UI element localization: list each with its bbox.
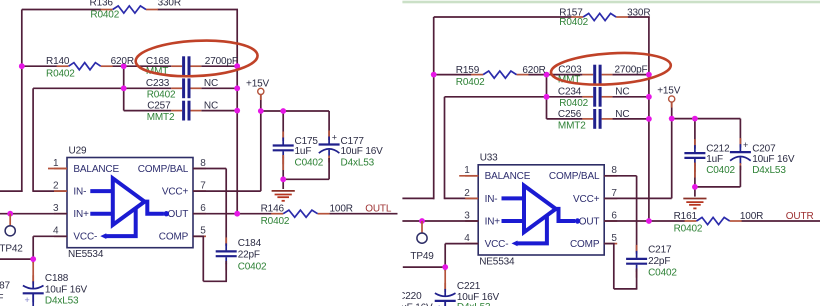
svg-text:620R: 620R xyxy=(111,56,134,67)
svg-text:C233: C233 xyxy=(146,78,170,89)
svg-text:22pF: 22pF xyxy=(238,250,260,261)
svg-text:D4xL53: D4xL53 xyxy=(341,157,375,168)
svg-text:1: 1 xyxy=(53,158,59,169)
svg-text:D4xL53: D4xL53 xyxy=(457,302,491,306)
svg-text:C256: C256 xyxy=(558,109,582,120)
svg-text:OUTR: OUTR xyxy=(786,211,814,222)
svg-text:COMP: COMP xyxy=(570,239,600,250)
svg-text:R140: R140 xyxy=(46,56,70,67)
svg-text:R0402: R0402 xyxy=(261,216,290,227)
svg-text:COMP/BAL: COMP/BAL xyxy=(549,171,600,182)
svg-text:2700pF: 2700pF xyxy=(615,64,648,75)
svg-text:R0402: R0402 xyxy=(559,98,588,109)
svg-text:C221: C221 xyxy=(457,281,481,292)
svg-text:IN-: IN- xyxy=(485,194,498,205)
svg-text:7: 7 xyxy=(200,181,206,192)
svg-text:MMT2: MMT2 xyxy=(558,121,586,132)
svg-text:C0402: C0402 xyxy=(648,268,677,279)
svg-text:3: 3 xyxy=(464,210,470,221)
svg-text:6: 6 xyxy=(200,203,206,214)
svg-text:R0402: R0402 xyxy=(90,9,119,20)
svg-text:C177: C177 xyxy=(341,136,365,147)
svg-text:IN+: IN+ xyxy=(485,216,501,227)
svg-text:R0402: R0402 xyxy=(46,68,75,79)
svg-text:1uF: 1uF xyxy=(706,154,723,165)
svg-text:R161: R161 xyxy=(674,211,698,222)
svg-text:BALANCE: BALANCE xyxy=(73,164,119,175)
svg-text:+: + xyxy=(332,132,337,142)
svg-text:C207: C207 xyxy=(752,143,776,154)
svg-text:4: 4 xyxy=(464,233,470,244)
svg-text:C0402: C0402 xyxy=(706,165,735,176)
svg-text:IN+: IN+ xyxy=(73,209,89,220)
svg-text:VCC-: VCC- xyxy=(73,232,97,243)
svg-text:U29: U29 xyxy=(69,145,87,156)
svg-text:VCC+: VCC+ xyxy=(162,187,189,198)
svg-text:1uF: 1uF xyxy=(295,146,312,157)
svg-text:BALANCE: BALANCE xyxy=(485,171,531,182)
svg-text:C188: C188 xyxy=(45,273,69,284)
svg-text:10uF 16V: 10uF 16V xyxy=(45,284,88,295)
svg-text:NC: NC xyxy=(615,109,629,120)
svg-text:2700pF: 2700pF xyxy=(205,56,238,67)
svg-text:100R: 100R xyxy=(740,211,763,222)
svg-text:+: + xyxy=(743,140,748,150)
svg-text:100R: 100R xyxy=(330,204,353,215)
svg-text:TP49: TP49 xyxy=(410,251,434,262)
svg-text:C0402: C0402 xyxy=(295,157,324,168)
svg-text:R159: R159 xyxy=(456,65,480,76)
svg-text:3: 3 xyxy=(53,203,59,214)
svg-text:+15V: +15V xyxy=(657,86,681,97)
svg-text:D4xL53: D4xL53 xyxy=(45,296,79,306)
svg-text:C257: C257 xyxy=(147,101,171,112)
svg-text:330R: 330R xyxy=(158,0,181,8)
svg-text:2: 2 xyxy=(53,181,59,192)
svg-text:OUT: OUT xyxy=(168,209,189,220)
svg-text:5: 5 xyxy=(611,233,617,244)
svg-text:MMT2: MMT2 xyxy=(147,112,175,123)
svg-text:R136: R136 xyxy=(90,0,114,8)
svg-text:OUTL: OUTL xyxy=(365,204,392,215)
svg-text:COMP/BAL: COMP/BAL xyxy=(138,164,189,175)
svg-text:NE5534: NE5534 xyxy=(68,249,104,260)
svg-text:NC: NC xyxy=(204,101,218,112)
svg-text:VCC-: VCC- xyxy=(485,239,509,250)
svg-text:1: 1 xyxy=(464,165,470,176)
svg-text:5: 5 xyxy=(200,226,206,237)
svg-text:R0402: R0402 xyxy=(674,223,703,234)
svg-text:7: 7 xyxy=(611,188,617,199)
svg-text:C234: C234 xyxy=(558,87,582,98)
svg-text:NC: NC xyxy=(615,87,629,98)
svg-text:6: 6 xyxy=(611,210,617,221)
svg-text:D4xL53: D4xL53 xyxy=(752,165,786,176)
svg-text:C217: C217 xyxy=(648,245,672,256)
svg-text:+: + xyxy=(437,302,442,306)
svg-text:22pF: 22pF xyxy=(648,256,670,267)
svg-text:620R: 620R xyxy=(522,65,545,76)
svg-text:C0402: C0402 xyxy=(238,261,267,272)
svg-text:NC: NC xyxy=(204,78,218,89)
svg-text:+: + xyxy=(25,295,30,305)
svg-text:8: 8 xyxy=(611,165,617,176)
svg-text:COMP: COMP xyxy=(159,232,189,243)
svg-text:R146: R146 xyxy=(261,204,285,215)
svg-text:R0402: R0402 xyxy=(559,17,588,28)
svg-text:C187: C187 xyxy=(0,281,10,292)
svg-text:IN-: IN- xyxy=(73,187,86,198)
svg-text:VCC+: VCC+ xyxy=(573,194,600,205)
svg-text:C212: C212 xyxy=(706,143,730,154)
svg-text:330R: 330R xyxy=(627,7,650,18)
svg-text:OUT: OUT xyxy=(579,216,600,227)
svg-text:TP42: TP42 xyxy=(0,244,23,255)
svg-text:10uF 16V: 10uF 16V xyxy=(341,146,384,157)
svg-text:2: 2 xyxy=(464,188,470,199)
svg-text:R0402: R0402 xyxy=(456,77,485,88)
svg-text:10uF 16V: 10uF 16V xyxy=(752,154,795,165)
svg-text:+15V: +15V xyxy=(246,78,270,89)
svg-text:C175: C175 xyxy=(295,136,319,147)
svg-text:1uF: 1uF xyxy=(0,293,3,304)
svg-text:8: 8 xyxy=(200,158,206,169)
svg-text:R0402: R0402 xyxy=(147,90,176,101)
svg-text:4: 4 xyxy=(53,226,59,237)
svg-text:NE5534: NE5534 xyxy=(479,256,515,267)
svg-text:U33: U33 xyxy=(480,153,498,164)
svg-text:C184: C184 xyxy=(238,238,262,249)
